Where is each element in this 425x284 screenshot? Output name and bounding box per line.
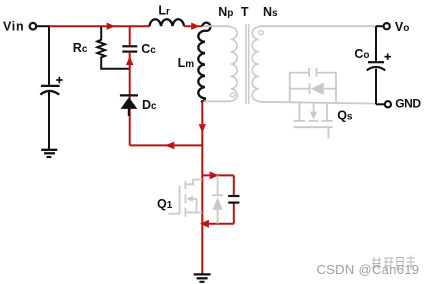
svg-text:Ns: Ns xyxy=(263,5,278,19)
wire red main switch node vertical xyxy=(201,101,203,273)
svg-text:T: T xyxy=(241,5,249,19)
wire gray secondary top rail to Vo node xyxy=(259,25,376,27)
wire red Q1 loop right side lower xyxy=(233,203,235,224)
wire red Q1 loop top branch xyxy=(202,174,234,176)
wire Cin to input ground xyxy=(48,92,50,149)
arrow current up below Cc xyxy=(126,56,133,65)
svg-text:Cc: Cc xyxy=(141,42,156,56)
wire output vertical lower xyxy=(375,69,377,105)
wire red Cc down through Dc node to clamp corner xyxy=(129,52,131,146)
wire red Q1 loop right side upper xyxy=(233,175,235,196)
capacitor C1 (Q1 output capacitance) xyxy=(228,196,239,203)
watermark xyxy=(317,256,420,277)
svg-text:Q1: Q1 xyxy=(157,197,173,211)
terminal Vo xyxy=(384,23,390,29)
inductor Lm (magnetizing) xyxy=(198,23,210,102)
svg-text:CSDN @Can619: CSDN @Can619 xyxy=(317,262,420,277)
wire stub to GND terminal xyxy=(376,103,385,105)
transistor Q1 (main switch MOSFET) xyxy=(169,180,203,217)
svg-text:GND: GND xyxy=(395,97,421,111)
svg-text:Vin: Vin xyxy=(3,20,24,34)
diode D1 (Q1 body diode) xyxy=(212,175,223,223)
svg-text:Lm: Lm xyxy=(178,56,195,70)
arrow current right on Q1 top branch xyxy=(210,171,219,179)
resistor Rc (with leads) xyxy=(97,26,129,69)
svg-text:Lr: Lr xyxy=(158,4,170,18)
capacitor Cin (input electrolytic) xyxy=(40,77,62,95)
wire red clamp bottom horizontal xyxy=(130,144,203,146)
wire Vin terminal to input node xyxy=(37,25,49,27)
wire top rail red (input node to Lr) xyxy=(49,25,150,27)
wire gray primary bottom lead xyxy=(204,100,231,102)
svg-text:Co: Co xyxy=(354,47,369,61)
terminal Vin xyxy=(30,23,37,30)
arrow current left on clamp bottom xyxy=(165,142,174,150)
wire red Q1 loop bottom branch xyxy=(202,223,234,225)
wire red Lr to node A xyxy=(184,25,202,27)
capacitor Co (output electrolytic) xyxy=(367,54,391,71)
arrow current left on Q1 bottom branch xyxy=(200,220,209,228)
svg-text:Dc: Dc xyxy=(142,98,157,112)
ground (input side) xyxy=(41,150,57,157)
inductor Lr xyxy=(150,19,185,26)
wire stub to Vo terminal xyxy=(376,25,384,27)
transformer T primary winding Np xyxy=(231,26,238,101)
terminal GND xyxy=(385,101,391,107)
wire gray secondary bottom rail to GND node xyxy=(259,102,376,104)
svg-text:Qs: Qs xyxy=(337,109,353,123)
svg-text:Np: Np xyxy=(218,5,233,19)
wire output vertical upper xyxy=(375,26,377,62)
svg-text:Rc: Rc xyxy=(73,41,88,55)
transformer T core xyxy=(246,24,249,104)
capacitor Cc (clamp) xyxy=(122,46,137,51)
wire input node down to Cin xyxy=(48,25,50,85)
diode Dc (clamp diode) xyxy=(120,95,138,116)
wire gray primary top lead xyxy=(204,25,231,27)
ground (power, bottom) xyxy=(194,274,211,281)
arrow current into node A xyxy=(191,23,199,30)
arrow current top rail right xyxy=(107,23,115,30)
transistor Qs (sync rectifier MOSFET) xyxy=(290,68,336,138)
transformer primary polarity dot xyxy=(231,93,235,97)
svg-text:Vo: Vo xyxy=(395,20,409,34)
transformer secondary polarity dot xyxy=(259,31,263,35)
wire red rail down to Cc xyxy=(129,26,131,46)
arrow current down on switch node xyxy=(199,124,206,133)
transformer T secondary winding Ns xyxy=(252,26,259,102)
